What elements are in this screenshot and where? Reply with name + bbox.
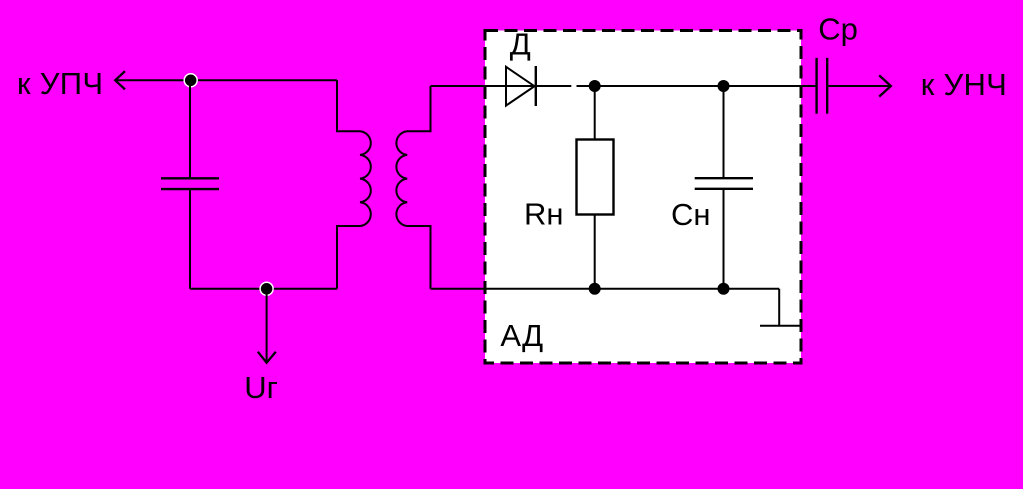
ground stem <box>778 289 780 326</box>
wire: Ср to к УНЧ arrow <box>828 85 890 87</box>
node: Rн bottom <box>589 283 601 295</box>
svg-text:Д: Д <box>510 26 531 61</box>
svg-text:к УПЧ: к УПЧ <box>17 66 103 101</box>
wire: bottom rail through box <box>431 288 780 290</box>
label к УНЧ <box>921 67 1007 102</box>
svg-text:АД: АД <box>500 318 543 353</box>
transformer T1 primary winding (left coil) <box>337 80 371 288</box>
label Сн <box>671 197 711 232</box>
node: Сн bottom <box>718 283 730 295</box>
node: Сн top <box>718 80 730 92</box>
wire: top rail inside box to Ср left plate <box>577 85 816 87</box>
label Rн <box>524 196 564 231</box>
node: tank top junction <box>184 74 197 87</box>
wire: down to resistor Rн <box>594 86 596 140</box>
detector block АД dashed boundary <box>485 31 801 364</box>
wire: diode cathode to gap <box>536 85 572 87</box>
diode Д cathode bar <box>535 66 537 106</box>
capacitor Ср plates <box>817 58 828 114</box>
wire: secondary top to diode anode <box>431 85 536 87</box>
node: Uг tap junction <box>260 282 273 295</box>
label Д <box>510 26 531 61</box>
arrow head to к УПЧ <box>115 71 125 89</box>
svg-text:Ср: Ср <box>818 12 858 47</box>
wire: down to capacitor Сн <box>723 86 725 177</box>
transformer T1 secondary winding (right coil) <box>396 86 430 289</box>
ground bar <box>760 325 801 327</box>
node: diode output / Rн top <box>589 80 601 92</box>
svg-text:к УНЧ: к УНЧ <box>921 67 1007 102</box>
svg-text:Сн: Сн <box>671 197 711 232</box>
label Uг <box>244 370 278 405</box>
wire: top-left horizontal to к УПЧ <box>116 79 337 81</box>
label АД <box>500 318 543 353</box>
resistor Rн body <box>577 140 614 215</box>
svg-text:Rн: Rн <box>524 196 564 231</box>
label Ср <box>818 12 858 47</box>
wire: bottom-left horizontal rail <box>190 288 337 290</box>
wire: Uг stem <box>266 289 268 362</box>
label к УПЧ <box>17 66 103 101</box>
wire: capacitor Сн bottom to bottom rail <box>723 190 725 289</box>
capacitor Сн plates <box>695 178 753 189</box>
svg-text:Uг: Uг <box>244 370 278 405</box>
wire: resistor Rн bottom to bottom rail <box>594 215 596 289</box>
diode Д triangle <box>506 67 535 106</box>
wire: from tank capacitor down to bottom rail <box>189 190 191 289</box>
capacitor (tank, left) plates <box>161 178 219 189</box>
wire: from top node down to tank capacitor <box>189 80 191 177</box>
arrow head to к УНЧ (right) <box>879 75 891 96</box>
arrow head Uг (down) <box>258 352 276 363</box>
